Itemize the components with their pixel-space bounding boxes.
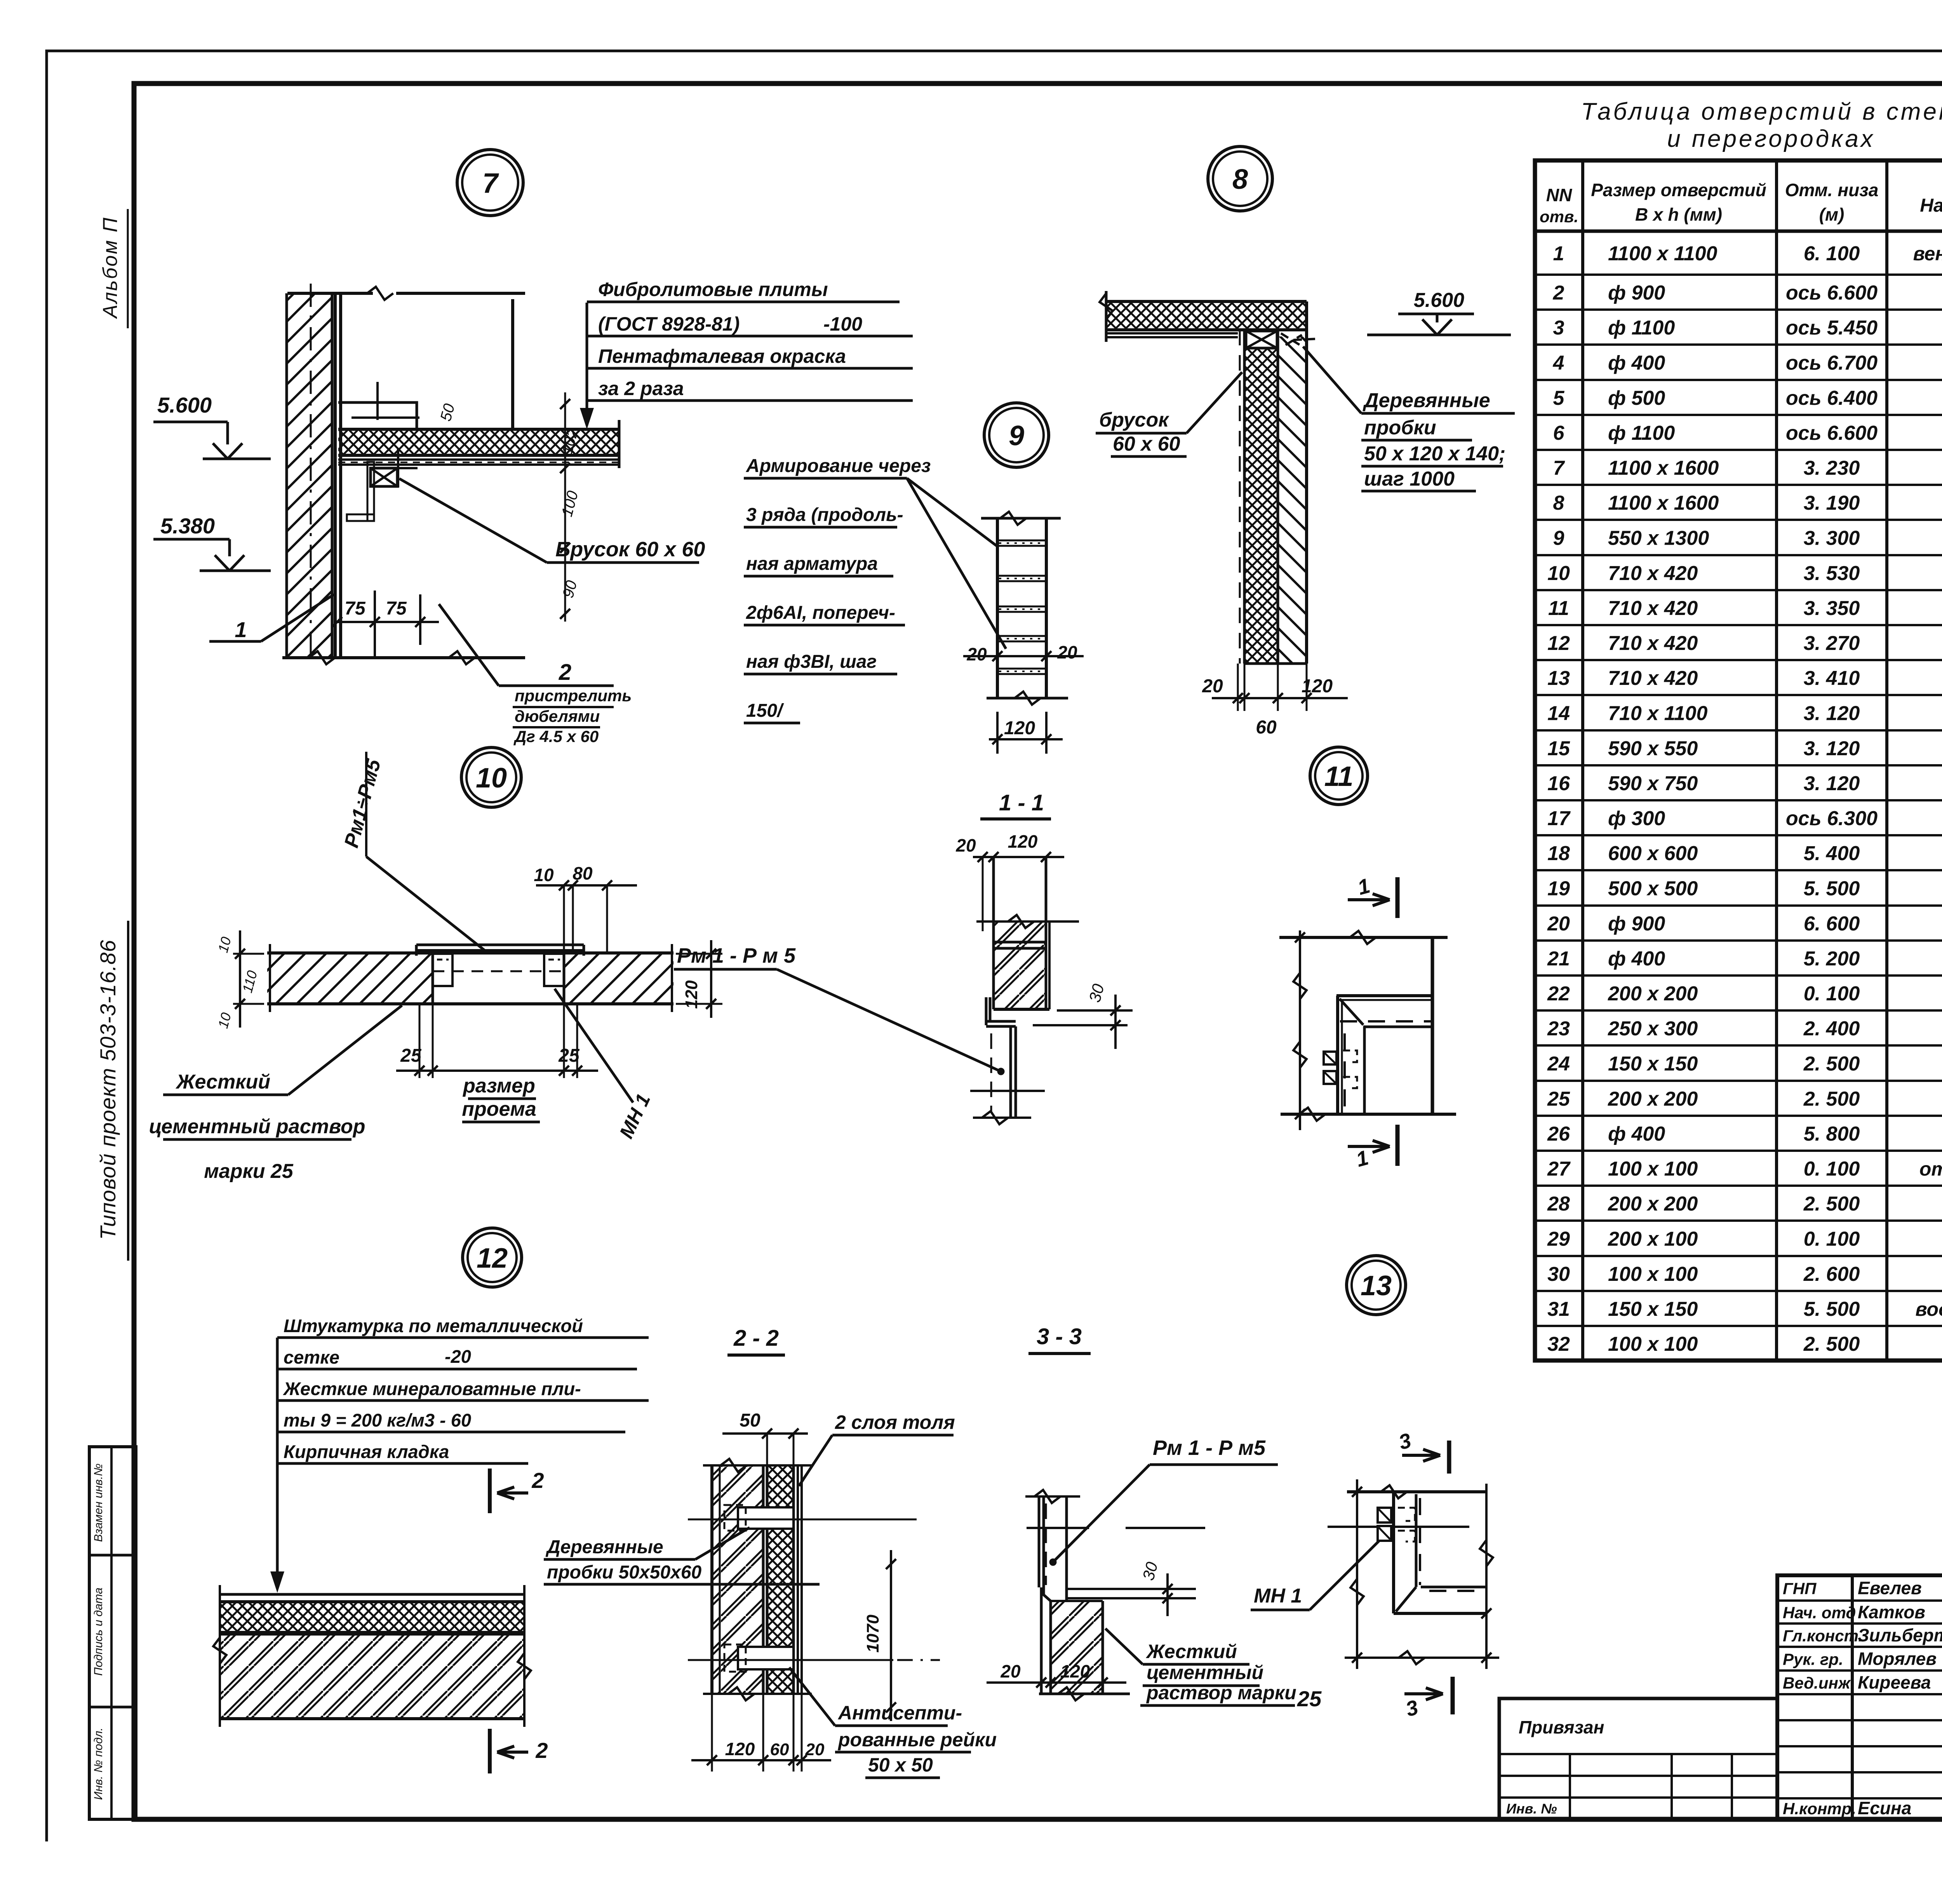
svg-text:5. 500: 5. 500 — [1804, 878, 1860, 900]
svg-text:5.380: 5.380 — [160, 514, 215, 538]
svg-text:100 х 100: 100 х 100 — [1608, 1263, 1698, 1286]
svg-text:80: 80 — [573, 863, 593, 883]
svg-text:710 х 420: 710 х 420 — [1608, 667, 1698, 690]
svg-text:3. 120: 3. 120 — [1804, 772, 1860, 795]
svg-text:9: 9 — [1009, 420, 1024, 451]
detail 10: left dims — [233, 953, 264, 955]
svg-text:3. 230: 3. 230 — [1804, 457, 1860, 479]
svg-text:11: 11 — [1548, 597, 1569, 620]
svg-text:17: 17 — [1547, 807, 1571, 830]
svg-text:3. 300: 3. 300 — [1804, 527, 1860, 550]
svg-text:1100 х 1100: 1100 х 1100 — [1608, 242, 1718, 265]
svg-text:1: 1 — [1553, 242, 1564, 265]
svg-text:сетке: сетке — [284, 1347, 339, 1367]
svg-text:брусок: брусок — [1099, 409, 1169, 431]
svg-text:3. 350: 3. 350 — [1804, 597, 1860, 620]
svg-text:проема: проема — [462, 1098, 536, 1120]
svg-text:120: 120 — [1060, 1661, 1090, 1681]
svg-text:13: 13 — [1361, 1270, 1392, 1301]
svg-text:-100: -100 — [823, 313, 862, 335]
svg-text:500 х 500: 500 х 500 — [1608, 878, 1698, 900]
svg-text:ось 6.300: ось 6.300 — [1786, 807, 1878, 830]
svg-text:710 х 420: 710 х 420 — [1608, 597, 1698, 620]
svg-text:Антисепти-: Антисепти- — [837, 1702, 962, 1724]
svg-text:Жесткий: Жесткий — [175, 1071, 270, 1093]
svg-text:30: 30 — [1085, 982, 1108, 1004]
svg-text:590 х 750: 590 х 750 — [1608, 772, 1698, 795]
svg-text:отв.: отв. — [1540, 207, 1578, 226]
svg-text:Деревянные: Деревянные — [1363, 389, 1490, 412]
svg-text:NN: NN — [1546, 185, 1572, 205]
svg-text:цементный: цементный — [1147, 1662, 1263, 1683]
svg-text:25: 25 — [558, 1045, 580, 1066]
svg-text:3. 120: 3. 120 — [1804, 702, 1860, 725]
svg-text:29: 29 — [1547, 1228, 1570, 1251]
svg-text:15: 15 — [1547, 737, 1570, 760]
svg-text:20: 20 — [1057, 642, 1077, 662]
svg-text:2. 400: 2. 400 — [1803, 1017, 1860, 1040]
svg-text:ф 400: ф 400 — [1608, 948, 1665, 970]
svg-text:5.600: 5.600 — [1414, 289, 1464, 312]
svg-text:1: 1 — [1354, 1146, 1371, 1172]
svg-text:4: 4 — [1553, 352, 1564, 375]
svg-text:(ГОСТ 8928-81): (ГОСТ 8928-81) — [598, 313, 740, 335]
svg-text:120: 120 — [682, 980, 701, 1009]
svg-text:10: 10 — [476, 763, 507, 794]
detail 8: wood block with X — [1246, 331, 1277, 348]
svg-text:1100 х 1600: 1100 х 1600 — [1608, 457, 1719, 479]
svg-text:и перегородках: и перегородках — [1667, 125, 1875, 152]
detail 7: bottom edge — [282, 656, 525, 659]
svg-text:7: 7 — [482, 168, 499, 199]
svg-text:25: 25 — [400, 1045, 422, 1066]
svg-text:60: 60 — [1256, 717, 1277, 738]
svg-text:50 х 120 х 140;: 50 х 120 х 140; — [1364, 442, 1505, 465]
svg-text:Есина: Есина — [1858, 1798, 1911, 1818]
svg-text:2. 500: 2. 500 — [1803, 1333, 1860, 1355]
svg-text:9: 9 — [1553, 527, 1564, 550]
svg-text:200 х 200: 200 х 200 — [1608, 1193, 1698, 1215]
svg-text:ная арматура: ная арматура — [746, 554, 878, 574]
detail 7: ceiling slab (fibrolite) — [338, 429, 619, 455]
detail 13: corner plan — [1347, 1490, 1488, 1493]
svg-text:Кирпичная кладка: Кирпичная кладка — [284, 1441, 449, 1462]
svg-text:5. 500: 5. 500 — [1804, 1298, 1860, 1320]
detail 7 circle — [457, 150, 523, 216]
svg-text:МН 1: МН 1 — [1254, 1585, 1302, 1607]
svg-text:размер: размер — [462, 1075, 535, 1097]
section 2-2: wall layers — [712, 1465, 763, 1694]
svg-text:13: 13 — [1547, 667, 1570, 690]
svg-text:Подпись и дата: Подпись и дата — [92, 1588, 105, 1676]
section 1-1: upper brick pier — [992, 857, 995, 1009]
svg-text:МН 1: МН 1 — [615, 1090, 654, 1142]
svg-text:10: 10 — [1547, 562, 1570, 585]
svg-text:Жесткий: Жесткий — [1145, 1641, 1237, 1662]
svg-text:3. 410: 3. 410 — [1804, 667, 1860, 690]
svg-text:марки 25: марки 25 — [204, 1160, 294, 1183]
svg-text:2. 500: 2. 500 — [1803, 1193, 1860, 1215]
detail 7: top edge line — [287, 292, 373, 295]
svg-text:2: 2 — [559, 660, 571, 685]
svg-text:590 х 550: 590 х 550 — [1608, 737, 1698, 760]
svg-text:Альбом П: Альбом П — [99, 216, 122, 319]
detail 12: leader arrow down — [276, 1338, 279, 1587]
svg-text:12: 12 — [1547, 632, 1570, 655]
svg-text:120: 120 — [1302, 676, 1333, 697]
svg-text:Типовой проект 503-3-16.86: Типовой проект 503-3-16.86 — [96, 940, 120, 1240]
svg-text:Зильбертов: Зильбертов — [1858, 1625, 1942, 1645]
svg-text:Рм 1 - Р м5: Рм 1 - Р м5 — [1153, 1436, 1266, 1460]
detail 13: dim lines — [1356, 1479, 1358, 1669]
svg-text:20: 20 — [955, 835, 976, 855]
svg-text:3: 3 — [1403, 1696, 1421, 1721]
svg-text:60 х 60: 60 х 60 — [1113, 433, 1180, 455]
svg-text:24: 24 — [1547, 1053, 1570, 1075]
svg-text:цементный раствор: цементный раствор — [149, 1115, 365, 1138]
detail 9: brick pillar — [996, 518, 999, 698]
svg-text:ф 1100: ф 1100 — [1608, 422, 1675, 444]
svg-text:150 х 150: 150 х 150 — [1608, 1053, 1698, 1075]
table grids — [1535, 160, 1942, 1360]
svg-text:Жесткие минераловатные пли-: Жесткие минераловатные пли- — [283, 1378, 581, 1399]
svg-text:3 ряда (продоль-: 3 ряда (продоль- — [746, 505, 903, 525]
svg-text:23: 23 — [1547, 1017, 1570, 1040]
svg-text:Гл.конст.: Гл.конст. — [1783, 1627, 1863, 1645]
detail 8: bottom dims 20/60/120 — [1237, 664, 1239, 711]
svg-text:20: 20 — [1000, 1661, 1021, 1681]
svg-text:6. 600: 6. 600 — [1804, 913, 1860, 935]
svg-text:пристрелить: пристрелить — [515, 686, 632, 705]
svg-text:Инв. №: Инв. № — [1506, 1801, 1557, 1817]
section 2-2: wood plugs — [738, 1507, 794, 1529]
svg-text:32: 32 — [1547, 1333, 1570, 1355]
svg-text:710 х 420: 710 х 420 — [1608, 562, 1698, 585]
svg-text:ф 500: ф 500 — [1608, 387, 1665, 409]
svg-text:120: 120 — [1008, 831, 1038, 852]
svg-text:Привязан: Привязан — [1519, 1717, 1604, 1737]
detail 13 circle — [1347, 1256, 1406, 1315]
svg-text:30: 30 — [1547, 1263, 1570, 1286]
svg-text:3. 120: 3. 120 — [1804, 737, 1860, 760]
svg-text:20: 20 — [1547, 913, 1570, 935]
svg-text:ось 6.400: ось 6.400 — [1786, 387, 1878, 409]
svg-text:100 х 100: 100 х 100 — [1608, 1333, 1698, 1355]
svg-text:50: 50 — [740, 1410, 760, 1431]
svg-text:Евелев: Евелев — [1858, 1578, 1922, 1598]
svg-text:пробки 50х50х60: пробки 50х50х60 — [547, 1562, 702, 1583]
svg-text:ная ф3ВI, шаг: ная ф3ВI, шаг — [746, 652, 877, 672]
svg-text:Назначение: Назначение — [1920, 195, 1942, 216]
title block: left attachment box — [1499, 1698, 1777, 1819]
svg-text:ф 300: ф 300 — [1608, 807, 1665, 830]
svg-text:200 х 200: 200 х 200 — [1608, 1088, 1698, 1110]
svg-text:ось 6.700: ось 6.700 — [1786, 352, 1878, 375]
section 2-2: dim 1070 — [890, 1550, 892, 1721]
svg-text:Таблица отверстий в стена: Таблица отверстий в стенах — [1581, 98, 1942, 125]
svg-text:20: 20 — [1202, 676, 1223, 697]
svg-text:Размер отверстий: Размер отверстий — [1591, 180, 1766, 200]
detail 12 circle — [463, 1228, 522, 1287]
svg-text:120: 120 — [725, 1739, 755, 1759]
svg-text:(м): (м) — [1819, 204, 1845, 225]
svg-text:3 - 3: 3 - 3 — [1037, 1324, 1082, 1349]
detail 11: corner plan — [1279, 936, 1448, 939]
svg-text:ф 400: ф 400 — [1608, 1123, 1665, 1145]
svg-text:5. 800: 5. 800 — [1804, 1123, 1860, 1145]
svg-text:0. 100: 0. 100 — [1804, 1228, 1860, 1251]
svg-text:Брусок 60 х 60: Брусок 60 х 60 — [555, 538, 705, 561]
section 1-1: jamb profile — [985, 997, 988, 1025]
svg-text:250 х 300: 250 х 300 — [1608, 1017, 1698, 1040]
detail 7: fixing bracket — [338, 402, 417, 429]
svg-text:60: 60 — [770, 1740, 789, 1759]
svg-text:3. 190: 3. 190 — [1804, 492, 1860, 514]
svg-text:20: 20 — [966, 644, 987, 664]
svg-text:2: 2 — [531, 1468, 544, 1493]
svg-text:1: 1 — [1355, 874, 1373, 900]
svg-text:11: 11 — [1324, 761, 1354, 792]
detail 13: anchor plates MN1 — [1378, 1508, 1391, 1523]
svg-text:2. 600: 2. 600 — [1803, 1263, 1860, 1286]
svg-text:100 х 100: 100 х 100 — [1608, 1158, 1698, 1180]
svg-text:3: 3 — [1396, 1429, 1414, 1455]
svg-text:6: 6 — [1553, 422, 1565, 444]
svg-text:2: 2 — [1553, 282, 1564, 304]
detail 7: dowel strip (dotted) — [367, 462, 374, 521]
svg-text:120: 120 — [1004, 718, 1035, 739]
detail 9: leaders — [907, 478, 997, 546]
svg-text:100: 100 — [559, 489, 582, 519]
svg-text:ф 1100: ф 1100 — [1608, 317, 1675, 339]
svg-text:ф 900: ф 900 — [1608, 913, 1665, 935]
svg-text:50: 50 — [437, 402, 458, 423]
svg-text:110: 110 — [239, 969, 260, 995]
detail 7: brusok square with X — [371, 468, 397, 486]
section 1-1: dim 30 — [1057, 1009, 1133, 1012]
detail 11: dim line left — [1299, 930, 1301, 1130]
svg-text:90: 90 — [559, 578, 580, 599]
svg-text:6. 100: 6. 100 — [1804, 242, 1860, 265]
svg-text:710 х 1100: 710 х 1100 — [1608, 702, 1707, 725]
section 3-3: upper member — [1038, 1496, 1041, 1587]
detail 10 circle — [461, 747, 521, 807]
svg-text:600 х 600: 600 х 600 — [1608, 842, 1698, 865]
detail 10: wall band plan — [267, 953, 433, 1004]
svg-text:3. 270: 3. 270 — [1804, 632, 1860, 655]
detail 8 circle — [1208, 146, 1272, 211]
svg-text:5. 400: 5. 400 — [1804, 842, 1860, 865]
svg-text:Взамен инв.№: Взамен инв.№ — [92, 1463, 105, 1542]
detail 7: brick wall section — [287, 293, 332, 658]
svg-text:10: 10 — [534, 865, 554, 885]
svg-text:Деревянные: Деревянные — [545, 1537, 663, 1557]
svg-text:19: 19 — [1547, 878, 1570, 900]
svg-text:ф 400: ф 400 — [1608, 352, 1665, 375]
svg-text:150/: 150/ — [746, 700, 784, 721]
svg-text:1 - 1: 1 - 1 — [999, 790, 1044, 815]
svg-text:2 слоя толя: 2 слоя толя — [835, 1411, 955, 1433]
svg-text:ты 9 = 200 кг/м3 - 60: ты 9 = 200 кг/м3 - 60 — [284, 1410, 471, 1430]
svg-text:Рук. гр.: Рук. гр. — [1783, 1650, 1843, 1669]
svg-text:рованные рейки: рованные рейки — [837, 1729, 997, 1751]
title block: signature table — [1777, 1575, 1942, 1819]
svg-text:10: 10 — [215, 1011, 234, 1030]
detail 11: section mark 1 bottom — [1348, 1145, 1390, 1148]
svg-text:Вед.инж.: Вед.инж. — [1783, 1674, 1855, 1692]
svg-text:Фибролитовые плиты: Фибролитовые плиты — [598, 279, 828, 300]
svg-text:Пентафталевая окраска: Пентафталевая окраска — [598, 345, 846, 367]
svg-text:ось 6.600: ось 6.600 — [1786, 422, 1878, 444]
svg-text:2. 500: 2. 500 — [1803, 1088, 1860, 1110]
svg-text:3: 3 — [1553, 317, 1564, 339]
svg-text:5. 200: 5. 200 — [1804, 948, 1860, 970]
svg-text:за 2 раза: за 2 раза — [598, 378, 684, 399]
svg-text:пробки: пробки — [1364, 416, 1436, 439]
svg-text:10: 10 — [215, 935, 234, 954]
svg-text:Штукатурка по металлической: Штукатурка по металлической — [284, 1315, 583, 1336]
svg-text:Н.контр.: Н.контр. — [1783, 1799, 1856, 1818]
detail 8: wall below slab — [1239, 330, 1241, 664]
detail 9: dim 20 20 — [963, 655, 1084, 657]
detail 9: dim 120 — [996, 712, 999, 754]
svg-text:Катков: Катков — [1858, 1602, 1925, 1622]
svg-text:Дг 4.5 х 60: Дг 4.5 х 60 — [513, 727, 599, 746]
svg-text:200 х 100: 200 х 100 — [1608, 1228, 1698, 1251]
svg-text:26: 26 — [1547, 1123, 1570, 1145]
detail 11 circle — [1310, 747, 1368, 805]
svg-text:21: 21 — [1547, 948, 1570, 970]
detail 10: dim 120 right — [676, 953, 722, 955]
section 2-2: bottom dims 120 60 20 — [711, 1694, 713, 1772]
svg-text:50 х 50: 50 х 50 — [868, 1754, 933, 1776]
svg-text:2: 2 — [535, 1738, 548, 1763]
section 3-3: lower brick wall — [1051, 1601, 1103, 1694]
svg-text:Армирование через: Армирование через — [746, 456, 931, 476]
svg-text:раствор марки: раствор марки — [1146, 1682, 1296, 1704]
svg-text:31: 31 — [1547, 1298, 1570, 1320]
svg-text:25: 25 — [1547, 1088, 1570, 1110]
svg-text:Инв. № подл.: Инв. № подл. — [92, 1728, 105, 1800]
svg-text:ф 900: ф 900 — [1608, 282, 1665, 304]
detail 11: anchor plates MN1 — [1324, 1052, 1336, 1064]
svg-text:ось 6.600: ось 6.600 — [1786, 282, 1878, 304]
svg-text:Нач. отд: Нач. отд — [1783, 1604, 1856, 1622]
svg-text:8: 8 — [1232, 164, 1248, 195]
svg-text:5.600: 5.600 — [157, 393, 212, 417]
svg-text:1: 1 — [235, 617, 247, 642]
svg-text:ось 5.450: ось 5.450 — [1786, 317, 1878, 339]
svg-text:75: 75 — [386, 598, 407, 619]
detail 8: ceiling slab — [1106, 301, 1307, 330]
svg-text:Рм1÷Рм5: Рм1÷Рм5 — [340, 756, 386, 850]
svg-text:5: 5 — [1553, 387, 1565, 409]
detail 7: leader + label fibrolite plates — [586, 303, 588, 423]
svg-text:1100 х 1600: 1100 х 1600 — [1608, 492, 1719, 514]
svg-text:16: 16 — [1547, 772, 1570, 795]
svg-text:22: 22 — [1547, 982, 1570, 1005]
svg-text:14: 14 — [1547, 702, 1570, 725]
svg-text:200 х 200: 200 х 200 — [1608, 982, 1698, 1005]
left stamp boxes — [89, 1447, 136, 1819]
svg-text:2 - 2: 2 - 2 — [733, 1326, 779, 1351]
svg-text:шаг 1000: шаг 1000 — [1364, 468, 1455, 490]
svg-text:75: 75 — [345, 598, 366, 619]
svg-text:отопление: отопление — [1919, 1158, 1942, 1180]
svg-text:0. 100: 0. 100 — [1804, 982, 1860, 1005]
svg-text:1070: 1070 — [863, 1615, 882, 1653]
svg-text:27: 27 — [1547, 1158, 1571, 1180]
svg-text:водопровод: водопровод — [1916, 1298, 1942, 1320]
section 3-3: shelf — [1044, 1587, 1051, 1601]
svg-text:2. 500: 2. 500 — [1803, 1053, 1860, 1075]
section 3-3: dim 30 — [1162, 1584, 1173, 1594]
svg-text:Отм. низа: Отм. низа — [1785, 180, 1879, 200]
svg-text:150 х 150: 150 х 150 — [1608, 1298, 1698, 1320]
svg-text:-20: -20 — [445, 1346, 471, 1367]
svg-text:30: 30 — [1139, 1560, 1161, 1582]
detail 9 circle — [984, 403, 1049, 467]
svg-text:550 х 1300: 550 х 1300 — [1608, 527, 1709, 550]
svg-text:вентиляция: вентиляция — [1913, 243, 1942, 265]
svg-text:В х h (мм): В х h (мм) — [1635, 204, 1722, 225]
svg-text:25: 25 — [1297, 1686, 1322, 1711]
svg-text:0. 100: 0. 100 — [1804, 1158, 1860, 1180]
svg-text:Киреева: Киреева — [1858, 1672, 1931, 1693]
detail 10: frame at opening — [416, 944, 584, 946]
svg-text:710 х 420: 710 х 420 — [1608, 632, 1698, 655]
svg-text:28: 28 — [1547, 1193, 1570, 1215]
svg-text:ГНП: ГНП — [1783, 1580, 1817, 1598]
svg-text:12: 12 — [477, 1243, 508, 1274]
svg-text:20: 20 — [805, 1740, 825, 1759]
svg-text:Морялев: Морялев — [1858, 1649, 1937, 1669]
svg-text:Рм 1 - Р м 5: Рм 1 - Р м 5 — [677, 944, 796, 967]
svg-text:8: 8 — [1553, 492, 1564, 514]
svg-text:7: 7 — [1553, 457, 1565, 479]
detail 12: floor slab — [220, 1593, 524, 1596]
svg-text:3. 530: 3. 530 — [1804, 562, 1860, 585]
svg-text:дюбелями: дюбелями — [515, 707, 600, 725]
detail 10: bottom dims 25 / opening / 25 — [419, 1004, 421, 1078]
detail 13: section mark 3 bottom — [1404, 1692, 1443, 1695]
svg-text:18: 18 — [1547, 842, 1570, 865]
svg-text:2ф6АI, попереч-: 2ф6АI, попереч- — [746, 603, 895, 623]
